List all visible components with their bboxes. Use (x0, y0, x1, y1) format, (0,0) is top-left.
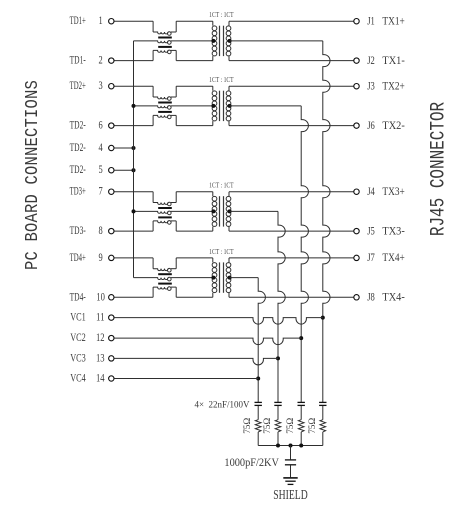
pin TD2- 6 (PC board) (109, 123, 114, 128)
pin J6 TX2- (RJ45) (354, 123, 359, 128)
pin TD4- 10 (PC board) (109, 295, 114, 300)
transformer T2 primary winding (212, 91, 217, 96)
wire TD4- input wire (114, 296, 153, 298)
pin J2 TX1- (RJ45) (354, 58, 359, 63)
pin J1 TX1+ (RJ45) (354, 19, 359, 24)
wire R2 to shield bus (300, 432, 302, 446)
svg-text:TD3-: TD3- (70, 223, 86, 237)
svg-text:RJ45 CONNECTOR: RJ45 CONNECTOR (428, 102, 450, 236)
transformer T3 core (219, 196, 221, 226)
wire center-tap vertical of T2 down to capacitor C2 (hops over crossing wires) (301, 106, 308, 403)
wire secondary center tap T2 to vertical node (230, 105, 302, 107)
resistor R2 75Ω (298, 420, 304, 432)
pin J3 TX2+ (RJ45) (354, 84, 359, 89)
pin TD3- 8 (PC board) (109, 228, 114, 233)
wire TD2- step up to choke L2 (152, 115, 154, 125)
junction VC1 on center-tap vertical (321, 316, 325, 320)
common-mode choke L2 top winding (153, 97, 168, 99)
pin J5 TX3- (RJ45) (354, 228, 359, 233)
svg-text:4× 22nF/100V: 4× 22nF/100V (195, 401, 250, 411)
common-mode choke L4 middle winding (center tap line from bus) (134, 278, 168, 280)
svg-text:TD3+: TD3+ (70, 184, 86, 198)
common-mode choke L3 top winding (153, 203, 168, 205)
wire choke L3 top winding to transformer T3 (175, 192, 177, 203)
wire TD3+ step down to choke L3 (152, 192, 154, 203)
wire choke L2 top winding to transformer T2 (175, 86, 177, 97)
svg-text:1CT : 1CT: 1CT : 1CT (209, 181, 234, 190)
common-mode choke L1 middle winding (center tap line from bus) (134, 41, 168, 43)
svg-text:1CT : 1CT: 1CT : 1CT (209, 247, 234, 256)
svg-text:J8: J8 (367, 290, 375, 304)
svg-text:PC BOARD CONNECTIONS: PC BOARD CONNECTIONS (23, 80, 44, 270)
wire R1 to shield bus (322, 432, 324, 446)
pin J7 TX4+ (RJ45) (354, 255, 359, 260)
svg-text:VC3: VC3 (70, 350, 86, 364)
pin J4 TX3+ (RJ45) (354, 189, 359, 194)
svg-text:TD1+: TD1+ (70, 13, 86, 27)
wire C2 to R2 (300, 406, 302, 420)
capacitor C3 22nF/100V (274, 401, 281, 403)
wire TD3- input wire (114, 230, 153, 232)
wire shield bus (bottom horizontal) (258, 445, 323, 447)
svg-text:J1: J1 (367, 13, 375, 27)
wire center-tap vertical of T4 down to capacitor C4 (hops over crossing wires) (258, 278, 265, 403)
svg-text:1CT : 1CT: 1CT : 1CT (209, 10, 234, 19)
svg-text:8: 8 (99, 223, 103, 237)
svg-text:VC2: VC2 (70, 330, 86, 344)
wire shield bus to C5 (290, 446, 292, 460)
common-mode choke L4 core bar upper (158, 273, 172, 275)
junction secondary center tap T2 (228, 104, 232, 108)
wire transformer T4 secondary top to J pin (228, 258, 230, 263)
svg-text:TX1-: TX1- (382, 53, 404, 67)
wire VC1 to center-tap vertical (dips under crossing wires) (114, 318, 323, 324)
transformer T2 secondary winding (226, 91, 231, 96)
junction primary center tap T3 (211, 209, 215, 213)
wire choke L1 bottom winding to transformer T1 (175, 50, 177, 60)
svg-text:TX4+: TX4+ (382, 250, 405, 264)
pin TD2+ 3 (PC board) (109, 84, 114, 89)
wire transformer T1 secondary top to J pin (228, 21, 230, 26)
svg-text:1000pF/2KV: 1000pF/2KV (224, 457, 279, 469)
svg-text:12: 12 (96, 330, 105, 344)
svg-text:5: 5 (99, 162, 103, 176)
wire transformer T3 secondary top to J pin (228, 192, 230, 197)
ground SHIELD symbol (283, 477, 297, 479)
common-mode choke L1 core bar lower (158, 46, 172, 48)
wire C5 to shield ground (290, 465, 292, 477)
junction VC2 on center-tap vertical (299, 336, 303, 340)
svg-text:TX3+: TX3+ (382, 184, 405, 198)
common-mode choke L1 bottom winding (153, 50, 168, 52)
junction primary center tap T1 (211, 39, 215, 43)
common-mode choke L3 core bar upper (158, 207, 172, 209)
svg-text:TD4-: TD4- (70, 289, 86, 303)
svg-text:J2: J2 (367, 53, 375, 67)
junction primary center tap T4 (211, 276, 215, 280)
junction bus with choke L3 center tap (132, 209, 136, 213)
junction secondary center tap T1 (228, 39, 232, 43)
wire TD2- input wire (114, 125, 153, 127)
svg-text:VC4: VC4 (70, 371, 86, 385)
wire TD1- step up to choke L1 (152, 50, 154, 60)
wire transformer T3 secondary bottom to J pin (228, 227, 230, 232)
junction VC3 on center-tap vertical (276, 356, 280, 360)
svg-text:TX2+: TX2+ (382, 78, 405, 92)
svg-text:75Ω: 75Ω (307, 417, 317, 433)
common-mode choke L2 core bar upper (158, 102, 172, 104)
transformer T2 core (219, 91, 221, 121)
svg-text:J5: J5 (367, 223, 375, 237)
wire TD3- step up to choke L3 (152, 221, 154, 231)
pin TD3+ 7 (PC board) (109, 189, 114, 194)
wire TD4+ step down to choke L4 (152, 258, 154, 269)
svg-text:TX1+: TX1+ (382, 13, 405, 27)
transformer T4 primary winding (212, 263, 217, 268)
wire transformer T1 secondary bottom to J pin (228, 56, 230, 61)
junction R2 on shield bus (299, 444, 303, 448)
svg-text:TD2-: TD2- (70, 140, 86, 154)
common-mode choke L3 middle winding (center tap line from bus) (134, 211, 168, 213)
svg-text:VC1: VC1 (70, 310, 86, 324)
wire secondary center tap T3 to vertical node (230, 210, 278, 212)
junction C5 tap on shield bus (289, 444, 293, 448)
wire primary center-tap bus (vertical) (133, 41, 135, 278)
wire transformer T2 secondary bottom to J pin (228, 121, 230, 126)
resistor R4 75Ω (255, 420, 261, 432)
junction pin 5 on bus (132, 168, 136, 172)
common-mode choke L2 bottom winding (153, 115, 168, 117)
wire TD2+ step down to choke L2 (152, 86, 154, 97)
wire secondary center tap T1 to vertical node (230, 40, 323, 42)
wire VC4 to center-tap vertical (dips under crossing wires) (114, 378, 258, 380)
svg-text:6: 6 (99, 118, 103, 132)
wire transformer T2 secondary top to J pin (228, 86, 230, 91)
svg-text:1CT : 1CT: 1CT : 1CT (209, 75, 234, 84)
common-mode choke L3 core bar lower (158, 216, 172, 218)
common-mode choke L2 middle winding (center tap line from bus) (134, 106, 168, 108)
svg-text:TX3-: TX3- (382, 223, 404, 237)
svg-text:75Ω: 75Ω (262, 417, 272, 433)
svg-text:7: 7 (99, 184, 103, 198)
svg-text:J6: J6 (367, 118, 375, 132)
wire transformer T4 secondary bottom to J pin (228, 293, 230, 298)
svg-text:SHIELD: SHIELD (273, 488, 308, 503)
common-mode choke L1 top winding (153, 32, 168, 34)
pin TD2- 5 (PC board) (109, 168, 114, 173)
svg-text:TD2+: TD2+ (70, 78, 86, 92)
wire TD1- input wire (114, 60, 153, 62)
wire secondary center tap T4 to vertical node (230, 277, 259, 279)
svg-text:TD2-: TD2- (70, 118, 86, 132)
wire VC2 to center-tap vertical (dips under crossing wires) (114, 338, 301, 345)
svg-text:J7: J7 (367, 250, 375, 264)
wire VC3 to center-tap vertical (dips under crossing wires) (114, 358, 278, 364)
svg-text:75Ω: 75Ω (242, 417, 252, 433)
wire choke L3 bottom winding to transformer T3 (175, 221, 177, 231)
pin VC2 12 (PC board) (109, 335, 114, 340)
wire TD2- pin 4 to center-tap bus (114, 147, 133, 149)
svg-text:TD2-: TD2- (70, 162, 86, 176)
pin TD2- 4 (PC board) (109, 145, 114, 150)
wire R4 to shield bus (257, 432, 259, 446)
wire choke L2 bottom winding to transformer T2 (175, 115, 177, 125)
node TD2+ input wire (114, 85, 153, 87)
node TD4+ input wire (114, 257, 153, 259)
pin VC3 13 (PC board) (109, 356, 114, 361)
junction secondary center tap T4 (228, 276, 232, 280)
pin TD1+ 1 (PC board) (109, 19, 114, 24)
pin TD1- 2 (PC board) (109, 58, 114, 63)
common-mode choke L4 bottom winding (153, 287, 168, 289)
wire R3 to shield bus (277, 432, 279, 446)
resistor R1 75Ω (320, 420, 326, 432)
pin VC1 11 (PC board) (109, 315, 114, 320)
pin VC4 14 (PC board) (109, 376, 114, 381)
wire TD2- pin 5 to center-tap bus (114, 169, 133, 171)
wire choke L4 top winding to transformer T4 (175, 258, 177, 269)
svg-text:3: 3 (99, 78, 103, 92)
capacitor C5 1000pF/2KV (285, 459, 296, 461)
junction bus with choke L2 center tap (132, 104, 136, 108)
wire center-tap vertical of T3 down to capacitor C3 (hops over crossing wires) (278, 211, 285, 402)
capacitor C2 22nF/100V (298, 401, 305, 403)
transformer T3 primary winding (212, 196, 217, 201)
svg-text:1: 1 (99, 13, 103, 27)
wire choke L4 bottom winding to transformer T4 (175, 287, 177, 297)
transformer T1 secondary winding (226, 26, 231, 31)
transformer T4 secondary winding (226, 263, 231, 268)
svg-text:TX4-: TX4- (382, 290, 404, 304)
junction secondary center tap T3 (228, 209, 232, 213)
common-mode choke L4 top winding (153, 269, 168, 271)
wire C4 to R4 (257, 406, 259, 420)
wire TD1+ step down to choke L1 (152, 21, 154, 32)
svg-text:2: 2 (99, 53, 103, 67)
svg-text:13: 13 (96, 350, 105, 364)
svg-text:10: 10 (96, 289, 105, 303)
transformer T1 core (219, 26, 221, 56)
common-mode choke L1 core bar upper (158, 37, 172, 39)
capacitor C4 22nF/100V (255, 401, 262, 403)
common-mode choke L3 bottom winding (153, 221, 168, 223)
transformer T3 secondary winding (226, 196, 231, 201)
wire TD4- step up to choke L4 (152, 287, 154, 297)
wire center-tap vertical of T1 down to capacitor C1 (hops over crossing wires) (323, 41, 330, 403)
svg-text:J3: J3 (367, 78, 375, 92)
node TD3+ input wire (114, 191, 153, 193)
svg-text:TD4+: TD4+ (70, 250, 86, 264)
svg-text:9: 9 (99, 250, 103, 264)
junction R3 on shield bus (276, 444, 280, 448)
svg-text:75Ω: 75Ω (285, 417, 295, 433)
svg-text:TX2-: TX2- (382, 118, 404, 132)
common-mode choke L2 core bar lower (158, 111, 172, 113)
pin TD4+ 9 (PC board) (109, 255, 114, 260)
node TD1+ input wire (114, 20, 153, 22)
wire choke L1 top winding to transformer T1 (175, 21, 177, 32)
pin J8 TX4- (RJ45) (354, 295, 359, 300)
capacitor C1 22nF/100V (319, 401, 326, 403)
junction VC4 on center-tap vertical (256, 377, 260, 381)
svg-text:J4: J4 (367, 184, 375, 198)
wire C1 to R1 (322, 406, 324, 420)
svg-text:11: 11 (96, 310, 105, 324)
svg-text:TD1-: TD1- (70, 53, 86, 67)
transformer T1 primary winding (212, 26, 217, 31)
svg-text:4: 4 (99, 140, 103, 154)
transformer T4 core (219, 262, 221, 292)
junction primary center tap T2 (211, 104, 215, 108)
junction pin 4 on bus (132, 146, 136, 150)
common-mode choke L4 core bar lower (158, 283, 172, 285)
wire C3 to R3 (277, 406, 279, 420)
resistor R3 75Ω (275, 420, 281, 432)
svg-text:14: 14 (96, 371, 105, 385)
